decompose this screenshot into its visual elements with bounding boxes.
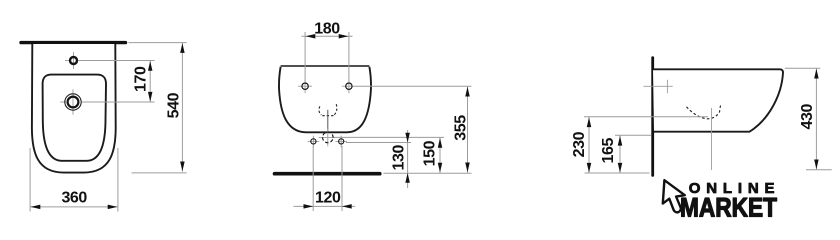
drain extension line to 150 (334, 136, 444, 138)
dimension 170 arrows (148, 61, 153, 102)
tap hole (plan) (70, 57, 77, 64)
dimension 165 lines (615, 135, 652, 173)
dimension 230 arrows (587, 117, 592, 172)
hidden bowl interior dashes (side) (687, 104, 721, 118)
svg-text:MARKET: MARKET (680, 193, 777, 223)
floor bar (front) (275, 172, 380, 176)
drain outer circle (plan) (65, 94, 81, 110)
dimension 360 lines (30, 148, 118, 212)
dimension 130 line (407, 130, 409, 188)
drain centerlines (front) (319, 129, 337, 147)
dimension 430 arrows (814, 69, 819, 169)
svg-text:130: 130 (390, 144, 407, 170)
cursor arrow (logo) (663, 180, 685, 212)
dimension 120 arrows (outside) (304, 204, 352, 209)
dimension 355 line (467, 86, 469, 172)
dimension 130 arrows (outside) (405, 133, 410, 183)
bowl top edge (front) (281, 65, 370, 67)
bidet body outline (side) (653, 69, 783, 131)
svg-text:165: 165 (600, 138, 617, 164)
svg-text:355: 355 (452, 115, 469, 141)
drain inner ring (plan) (68, 97, 79, 108)
svg-text:170: 170 (133, 66, 150, 92)
left outlet hole centerlines (front) (308, 136, 320, 148)
dimension 180 lines (302, 32, 353, 83)
dimension 230 lines (584, 117, 708, 173)
left outlet hole (front) (311, 139, 316, 144)
svg-text:360: 360 (61, 190, 87, 207)
outlet-hole extension line to 130 (346, 142, 411, 144)
dimension 170 lines (79, 61, 155, 103)
dimension 430 lines (785, 68, 832, 170)
right fixing hole centerlines (front) (342, 79, 353, 93)
dimension 150 arrows (438, 138, 443, 172)
dimension 180 arrows (306, 34, 349, 39)
drain center line (side) (711, 108, 713, 170)
bidet inner rim outline (plan) (43, 75, 106, 161)
drain circle (front) (321, 131, 335, 145)
right fixing hole (front) (346, 83, 352, 89)
dimension 355 arrows (465, 87, 470, 172)
drain centerlines (plan) (60, 89, 73, 114)
svg-text:150: 150 (421, 140, 438, 166)
bowl outline (front) (279, 67, 371, 133)
dimension 540 arrows (180, 43, 185, 171)
svg-text:540: 540 (165, 92, 182, 118)
dimension 540 lines (129, 43, 187, 173)
svg-text:180: 180 (314, 21, 340, 38)
wall bar (plan view) (21, 41, 126, 44)
trap center stem (front) (327, 110, 329, 132)
fixing-hole extension line to 355 (353, 85, 472, 87)
dimension 165 arrows (618, 136, 623, 173)
wall fixing cross (side) (644, 80, 673, 94)
svg-text:120: 120 (315, 190, 341, 207)
left fixing hole centerlines (front) (298, 79, 312, 93)
tap hole centerlines (plan) (65, 52, 74, 69)
svg-text:430: 430 (799, 104, 816, 130)
left fixing hole (front) (302, 83, 308, 89)
dimension 120 lines (294, 146, 356, 211)
dimension 150 line (439, 137, 441, 172)
right outlet hole centerlines (front) (335, 136, 347, 148)
hidden trap outline dashes (front) (319, 104, 337, 116)
svg-text:230: 230 (571, 131, 588, 157)
right outlet hole (front) (339, 139, 344, 144)
wall line (side) (651, 58, 654, 176)
floor extension line (front, right) (384, 172, 472, 174)
bidet outer outline (plan) (32, 44, 116, 173)
dimension 360 arrows (31, 205, 118, 210)
